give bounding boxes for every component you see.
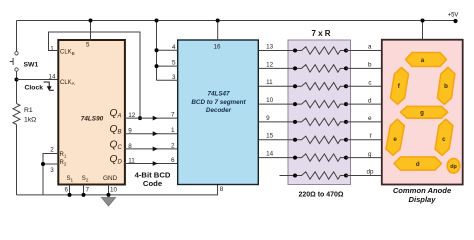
- wire: S2 pin7 stub: [83, 185, 85, 195]
- wire: QB pin9 to 74LS47 pin1: [125, 133, 179, 135]
- clock edge symbol: [44, 82, 54, 91]
- svg-text:Code: Code: [143, 179, 163, 188]
- svg-text:S1: S1: [67, 176, 74, 182]
- svg-text:dp: dp: [450, 164, 457, 170]
- svg-text:Common Anode: Common Anode: [393, 186, 452, 195]
- svg-text:7 x R: 7 x R: [311, 29, 330, 38]
- wire: left rail from +5V down to SW1: [16, 21, 18, 52]
- svg-text:11: 11: [266, 79, 273, 86]
- wire: CLKB pin1 feedback from QA: [49, 32, 141, 118]
- svg-text:14: 14: [266, 151, 274, 158]
- svg-text:BCD to 7 segment: BCD to 7 segment: [191, 99, 246, 106]
- resistor row f: [259, 139, 295, 141]
- svg-text:12: 12: [128, 112, 136, 119]
- svg-text:g: g: [420, 110, 424, 117]
- svg-text:7: 7: [86, 187, 90, 194]
- wire: reset R2 pin3: [43, 163, 59, 165]
- svg-text:6: 6: [171, 157, 175, 164]
- svg-text:dp: dp: [366, 169, 374, 176]
- svg-text:R1: R1: [60, 152, 67, 158]
- svg-text:c: c: [442, 136, 446, 143]
- resistor row b: [259, 67, 295, 69]
- svg-text:1: 1: [171, 127, 175, 134]
- svg-text:7: 7: [171, 112, 175, 119]
- node: +5V terminal: [453, 19, 457, 23]
- segment d: [394, 157, 442, 170]
- svg-text:Clock: Clock: [25, 85, 44, 92]
- svg-text:d: d: [416, 161, 420, 168]
- ground symbol: [102, 198, 116, 207]
- resistor row e: [259, 121, 295, 123]
- svg-text:6: 6: [64, 187, 68, 194]
- svg-text:9: 9: [128, 128, 132, 135]
- svg-text:b: b: [368, 62, 372, 69]
- svg-text:15: 15: [266, 133, 274, 140]
- svg-text:12: 12: [266, 61, 274, 68]
- svg-text:16: 16: [213, 44, 221, 51]
- svg-text:f: f: [370, 133, 372, 140]
- svg-text:CLKB: CLKB: [60, 50, 75, 56]
- wire: QC pin8 to 74LS47 pin2: [125, 148, 179, 150]
- svg-text:a: a: [421, 57, 425, 64]
- switch SW1: [10, 52, 39, 72]
- segment a: [406, 53, 447, 67]
- segment f: [391, 68, 409, 105]
- svg-text:9: 9: [266, 115, 270, 122]
- wire: +5V top rail: [17, 20, 456, 22]
- svg-text:10: 10: [110, 187, 118, 194]
- svg-text:S2: S2: [82, 176, 89, 182]
- resistor R1: [13, 104, 20, 125]
- wire: SW1 to clock node: [16, 71, 18, 103]
- svg-text:11: 11: [128, 157, 135, 164]
- svg-text:14: 14: [48, 73, 56, 80]
- resistor row c: [259, 85, 295, 87]
- resistor row d: [259, 103, 295, 105]
- svg-text:5: 5: [172, 60, 176, 67]
- svg-text:5: 5: [86, 41, 90, 48]
- wire: display anode to +5V: [422, 21, 424, 41]
- svg-text:13: 13: [266, 43, 274, 50]
- display box: [382, 40, 463, 185]
- wire: bottom ground rail: [17, 185, 218, 195]
- wire: reset R1 pin2: [43, 154, 59, 195]
- resistor row g: [259, 157, 295, 159]
- wire: S1 pin6 stub: [69, 185, 71, 195]
- IC U1 74LS90: [58, 40, 125, 185]
- svg-text:74LS47: 74LS47: [207, 91, 230, 98]
- svg-text:R1: R1: [24, 107, 33, 114]
- resistor row dp: [280, 175, 296, 177]
- segment b: [437, 68, 455, 105]
- svg-text:e: e: [368, 115, 372, 122]
- svg-text:b: b: [444, 83, 448, 90]
- svg-text:2: 2: [171, 142, 175, 149]
- node: clock junction: [15, 78, 19, 82]
- wire: VCC pin 5 stub: [90, 21, 92, 41]
- segment e: [386, 119, 404, 155]
- svg-text:8: 8: [128, 143, 132, 150]
- svg-text:R2: R2: [60, 160, 67, 166]
- svg-text:+5V: +5V: [448, 13, 459, 19]
- svg-text:Decoder: Decoder: [206, 107, 232, 114]
- wire: QD pin11 to 74LS47 pin6: [125, 163, 179, 165]
- segment c: [435, 119, 453, 155]
- segment dp: [447, 159, 460, 174]
- svg-text:4: 4: [172, 44, 176, 51]
- wire: VCC pin16 stub: [217, 21, 219, 41]
- segment g: [401, 106, 448, 118]
- svg-text:8: 8: [220, 186, 224, 193]
- resistor network box: [288, 40, 351, 185]
- svg-text:220Ω to 470Ω: 220Ω to 470Ω: [298, 191, 343, 198]
- svg-text:g: g: [368, 151, 372, 158]
- svg-text:10: 10: [266, 97, 274, 104]
- svg-text:CLKA: CLKA: [60, 80, 76, 86]
- wire: QA pin12 to 74LS47 pin7: [125, 117, 179, 119]
- svg-text:GND: GND: [103, 175, 118, 182]
- wire: LT/RBI/BI tie to +5V: [157, 21, 179, 81]
- svg-text:1: 1: [50, 45, 54, 52]
- svg-text:a: a: [368, 44, 372, 51]
- svg-text:3: 3: [172, 74, 176, 81]
- svg-text:2: 2: [50, 147, 54, 154]
- svg-text:1kΩ: 1kΩ: [24, 117, 36, 124]
- resistor row a: [259, 50, 295, 52]
- IC U2 74LS47: [178, 40, 259, 185]
- svg-text:3: 3: [50, 167, 54, 174]
- svg-text:c: c: [368, 79, 371, 86]
- svg-text:d: d: [368, 97, 372, 104]
- svg-text:SW1: SW1: [24, 61, 39, 68]
- wire: GND pin10 stub: [108, 185, 110, 195]
- wire: clock node to CLKA pin 14: [17, 79, 59, 81]
- wire: R1 to bottom rail: [16, 125, 18, 195]
- svg-text:74LS90: 74LS90: [81, 115, 104, 122]
- svg-text:e: e: [393, 136, 397, 143]
- svg-text:Display: Display: [408, 195, 436, 204]
